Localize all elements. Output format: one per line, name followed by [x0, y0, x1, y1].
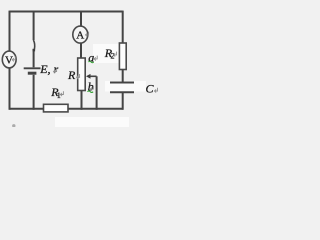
voltmeter V1 body — [2, 51, 16, 68]
capacitor C bottom plate — [110, 91, 134, 93]
svg-text:A: A — [76, 30, 84, 42]
pilcrow mark after b — [90, 86, 93, 91]
svg-text:C: C — [146, 82, 155, 96]
ammeter A1 body — [73, 26, 88, 43]
svg-text:R: R — [67, 68, 76, 82]
switch S lower contact dot — [33, 49, 36, 52]
wire: left branch lower (voltmeter down to bottom bus) — [9, 68, 11, 110]
switch S blade — [33, 40, 34, 49]
pilcrow mark after a — [94, 56, 97, 61]
green grammar squiggle under b — [88, 91, 94, 93]
rheostat R body — [78, 58, 86, 91]
svg-text:E, r: E, r — [39, 62, 58, 76]
pilcrow mark after A — [86, 32, 89, 37]
green grammar squiggle under a — [89, 61, 94, 62]
resistor R2 body — [119, 43, 126, 70]
wire: right branch from top bus to R2 — [122, 11, 124, 43]
resistor R1 body — [44, 104, 69, 112]
white text-line band at bottom — [55, 117, 129, 127]
svg-text:1: 1 — [57, 91, 61, 100]
wire: rheostat R bottom lead to bottom bus — [81, 91, 83, 110]
wire: battery branch from top bus to switch — [33, 11, 35, 40]
wire: bottom bus right segment — [68, 108, 123, 110]
pilcrow mark after R2 — [114, 52, 117, 57]
pilcrow mark after V — [12, 57, 15, 62]
wire: slider down to bottom bus — [96, 76, 98, 110]
svg-text:V: V — [5, 54, 13, 66]
wire: top horizontal bus — [10, 11, 123, 13]
pilcrow mark after E, r — [53, 68, 56, 73]
rheostat slider arrow (points left into R) — [89, 75, 97, 77]
wire: bottom bus left segment — [10, 108, 44, 110]
wire: left branch upper (top bus down to voltmeter) — [9, 11, 11, 52]
pilcrow mark after R1 — [60, 91, 63, 96]
battery E,r short plate (-) — [28, 72, 37, 75]
capacitor C top plate — [110, 82, 134, 84]
wire: battery to bottom bus — [33, 75, 35, 110]
white text-line band behind capacitor C — [105, 81, 146, 92]
wire: switch to battery — [33, 51, 35, 67]
pilcrow mark after R — [77, 74, 80, 79]
wire: ammeter to rheostat R — [80, 43, 82, 58]
wire: capacitor to bottom bus — [122, 92, 124, 110]
wire: ammeter branch from top bus — [80, 11, 82, 27]
pilcrow mark after C — [154, 88, 157, 93]
slider arrowhead — [86, 74, 91, 79]
battery E,r long plate (+) — [24, 67, 41, 69]
svg-text:2: 2 — [111, 52, 115, 61]
stray gray mark at bottom-left — [12, 124, 15, 127]
white text-line band behind node labels a and R2 — [93, 44, 120, 63]
wire: R2 to capacitor — [122, 70, 124, 83]
